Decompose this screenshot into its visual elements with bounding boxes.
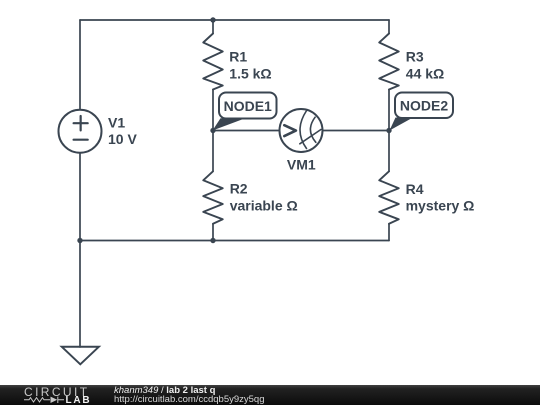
wire R4 bottom lead — [388, 224, 390, 241]
voltmeter VM1 circle — [280, 109, 323, 152]
svg-text:LAB: LAB — [66, 395, 92, 405]
svg-text:http://circuitlab.com/ccdqb5y9: http://circuitlab.com/ccdqb5y9zy5qg — [114, 394, 265, 405]
wire top horizontal — [80, 19, 389, 21]
svg-text:R1: R1 — [229, 49, 247, 65]
node label NODE1 — [219, 93, 277, 119]
VM1 arrow glyph — [284, 125, 296, 136]
svg-text:NODE2: NODE2 — [400, 98, 448, 114]
node label NODE2 — [395, 93, 453, 119]
junction bottom left — [77, 238, 82, 243]
CircuitLab logo diode arrow — [51, 397, 58, 403]
resistor R3 — [379, 34, 399, 90]
VM1 dial arc large — [300, 111, 307, 149]
resistor R4 — [379, 171, 399, 224]
wire middle left (node1 to voltmeter) — [213, 130, 280, 132]
svg-text:mystery Ω: mystery Ω — [406, 197, 475, 213]
callout wedge NODE1 — [213, 118, 246, 130]
wire R1 top lead — [212, 20, 214, 34]
svg-text:10 V: 10 V — [108, 131, 137, 147]
wire R1 bottom lead — [212, 90, 214, 131]
wire left branch lower — [79, 153, 81, 241]
svg-text:NODE1: NODE1 — [224, 98, 272, 114]
wire R3 bottom lead — [388, 90, 390, 131]
svg-text:VM1: VM1 — [287, 157, 316, 173]
wire left branch upper — [79, 20, 81, 110]
callout wedge NODE2 — [390, 118, 414, 131]
VM1 needle — [300, 130, 321, 144]
svg-text:44 kΩ: 44 kΩ — [406, 66, 444, 82]
wire right branch top — [388, 20, 390, 34]
svg-text:variable Ω: variable Ω — [230, 197, 298, 213]
wire middle right (voltmeter to node2) — [323, 130, 390, 132]
resistor R1 — [203, 34, 223, 90]
junction node A (NODE1) — [210, 128, 215, 133]
voltage source V1 — [59, 110, 102, 153]
ground symbol — [62, 347, 99, 365]
wire bottom horizontal — [80, 240, 389, 242]
V1 plus sign — [74, 116, 88, 130]
svg-text:1.5 kΩ: 1.5 kΩ — [229, 65, 271, 81]
wire R4 top lead — [388, 131, 390, 172]
CircuitLab logo schematic squiggle — [24, 397, 64, 403]
junction bottom middle — [210, 238, 215, 243]
wire ground lead — [79, 241, 81, 348]
junction top node — [210, 17, 215, 22]
junction node B (NODE2) — [386, 128, 391, 133]
wire R2 top lead — [212, 131, 214, 172]
VM1 dial arc small — [310, 117, 315, 142]
svg-text:V1: V1 — [108, 114, 125, 130]
wire R2 bottom lead — [212, 224, 214, 241]
svg-text:R3: R3 — [406, 48, 424, 64]
V1 minus sign — [74, 139, 88, 141]
resistor R2 — [203, 171, 223, 224]
svg-text:R2: R2 — [230, 181, 248, 197]
svg-text:R4: R4 — [406, 181, 424, 197]
